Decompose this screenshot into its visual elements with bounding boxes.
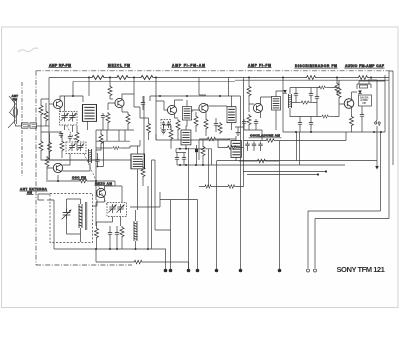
wire xyxy=(177,131,179,136)
long vertical x243.5 xyxy=(243,78,245,141)
wire xyxy=(127,112,129,130)
transistor Q8 audio FM xyxy=(344,99,354,109)
wire xyxy=(185,126,187,149)
label ANT EXTERNA AM xyxy=(20,187,48,194)
wire y262 row xyxy=(96,249,133,262)
rail down from bus at 199 xyxy=(199,78,206,96)
resistor R10 xyxy=(39,140,43,152)
wire row y148 with resistor xyxy=(96,146,130,148)
wire xyxy=(202,140,204,165)
AM osc coil L4 xyxy=(134,221,138,241)
wire Q6 emitter xyxy=(260,111,262,118)
wire Q8 collector/emitter xyxy=(352,92,358,115)
resistor R15 on 148 xyxy=(147,122,151,134)
wire Q2 base xyxy=(108,99,116,110)
small cap block xyxy=(195,149,198,152)
label OSC FM xyxy=(72,176,87,180)
wire disc bottom xyxy=(290,108,321,117)
wire Q2 collector xyxy=(122,78,134,108)
dots y96 xyxy=(159,95,221,97)
resistor R30 xyxy=(133,260,143,264)
svg-text:OSC FM: OSC FM xyxy=(72,176,86,180)
svg-text:SONY TFM 121: SONY TFM 121 xyxy=(337,265,386,274)
svg-text:MEZCL FM: MEZCL FM xyxy=(108,64,130,68)
capacitor C20 xyxy=(95,157,99,164)
dots on AM bus xyxy=(95,248,149,250)
antenna dash-dot lead xyxy=(21,82,23,176)
resistor R28 xyxy=(95,227,99,239)
label MEZC AM xyxy=(95,182,113,186)
wire ground row xyxy=(49,159,131,161)
dots disc bus xyxy=(295,131,382,133)
verticals disc to rails xyxy=(297,132,300,165)
AM var cap CV3 xyxy=(62,209,72,220)
capacitor C17 xyxy=(115,230,119,237)
verticals x208/x211 xyxy=(209,149,212,187)
drop rail x240.5 xyxy=(240,96,242,269)
disc bottom bus xyxy=(283,131,385,133)
wire ant externa lead xyxy=(38,194,50,200)
svg-text:AMP FI-FM-AM: AMP FI-FM-AM xyxy=(172,64,205,68)
capacitor C19 xyxy=(182,155,186,162)
IF transformer T1 xyxy=(183,107,192,121)
section label AMP RF-FM xyxy=(49,64,72,68)
resistor R9 xyxy=(75,131,79,143)
wire Q1 base xyxy=(49,103,54,105)
resistor R31 xyxy=(141,166,145,178)
capacitor C10 xyxy=(294,91,298,98)
dots osc row xyxy=(57,180,97,182)
wire xyxy=(361,106,363,132)
wire y139 zigzag row xyxy=(199,138,230,140)
B+ bus wire xyxy=(49,77,389,79)
resistor R7 input xyxy=(44,110,48,122)
osc tuning capacitor box CV2 (dashed) xyxy=(66,142,86,154)
capacitor C1 xyxy=(59,131,63,138)
svg-text:MEZC AM: MEZC AM xyxy=(95,182,112,186)
capacitor C16 xyxy=(108,230,112,237)
ground sym xyxy=(161,129,166,134)
resistor R27 xyxy=(350,115,354,127)
wire xyxy=(41,99,49,126)
wire xyxy=(137,146,139,172)
capacitor C4 xyxy=(141,100,145,107)
wire Q5 collector xyxy=(208,78,229,107)
wire Q2 emitter xyxy=(122,106,128,112)
wire Q1 collector to coil xyxy=(60,96,83,102)
wire xyxy=(49,133,51,160)
AM tuning dashed box CV4 xyxy=(107,203,127,217)
resistor R29 xyxy=(120,226,124,238)
resistor R17 xyxy=(204,118,208,130)
wire xyxy=(218,140,244,161)
capacitor C23 xyxy=(258,142,262,149)
section label DISCRIMINADOR FM xyxy=(295,64,338,68)
wire osc out xyxy=(48,160,115,200)
bus resistor R2 xyxy=(115,76,130,80)
drop rail x216 xyxy=(216,161,218,269)
capacitor C21 xyxy=(245,142,249,149)
wire xyxy=(98,153,104,167)
wire xyxy=(310,88,312,103)
rail from bus down left xyxy=(48,78,50,161)
wire xyxy=(61,133,63,158)
wire y186 row xyxy=(199,161,244,187)
rail down from bus at 110 with resistor xyxy=(109,78,111,86)
terminal dots bottom xyxy=(164,269,282,273)
coil L5 vertical xyxy=(169,129,173,141)
wire y161 row xyxy=(239,160,279,162)
wire Q6 base xyxy=(249,104,254,112)
wire L battery A xyxy=(308,132,381,268)
wire xyxy=(40,99,42,126)
resistor R18 xyxy=(194,115,198,127)
bus resistor R3 xyxy=(139,76,155,80)
resistor R8 xyxy=(48,141,52,153)
wire xyxy=(41,152,96,160)
resistor R35 xyxy=(206,137,217,141)
wire xyxy=(109,97,111,99)
wire xyxy=(351,127,353,132)
rail down from bus at 89 xyxy=(88,78,90,97)
svg-text:SALIDA: SALIDA xyxy=(360,96,369,99)
transistor Q3 OSC FM xyxy=(53,163,62,172)
resistor R23 disc mid xyxy=(300,101,310,104)
capacitor C13 xyxy=(298,120,302,127)
capacitor C3 xyxy=(101,113,105,120)
drop rail x197.5 xyxy=(197,200,199,270)
capacitor C9 xyxy=(242,119,246,126)
svg-text:AMP RF-FM: AMP RF-FM xyxy=(49,64,71,68)
wire xyxy=(164,125,172,149)
dot ends xyxy=(317,170,327,175)
section label MEZCL FM xyxy=(108,64,131,68)
ferrite coil L3 xyxy=(79,204,83,228)
FM chassis dash-dot boundary bottom xyxy=(36,264,132,266)
bus resistor R4 xyxy=(305,76,317,80)
wire jack rails xyxy=(359,75,385,132)
resistor R26 xyxy=(256,159,267,163)
wire xyxy=(186,100,187,126)
diode D1 xyxy=(283,90,287,93)
wire L battery B xyxy=(315,219,389,269)
wire under tuning box xyxy=(113,186,123,226)
resistor R8b xyxy=(60,140,64,152)
resistor R21 xyxy=(247,114,251,126)
bottom bus AM xyxy=(54,248,166,250)
resistor R25 vertical disc right xyxy=(337,87,341,99)
capacitor C12 xyxy=(315,94,319,101)
bus resistor R1 xyxy=(90,76,106,80)
wire xyxy=(228,136,236,161)
tuning capacitor box CV1 (dashed) xyxy=(60,112,78,126)
capacitor C11 xyxy=(309,91,313,98)
faint pencil smudge xyxy=(18,48,38,52)
wire disc top xyxy=(290,88,320,95)
capacitor C22 xyxy=(252,142,256,149)
earphone jack symbol xyxy=(357,81,371,89)
wire xyxy=(316,88,318,117)
section label AUDIO FM-AMP CAF xyxy=(345,64,385,68)
wire xyxy=(130,140,143,210)
wire xyxy=(330,116,336,118)
antenna FM telescopic rod xyxy=(8,96,18,128)
wire down to AM row xyxy=(95,130,97,160)
wire osc xyxy=(47,154,90,183)
wire cap bottoms xyxy=(248,149,261,152)
resistor R37 xyxy=(335,82,339,94)
wire emitter network xyxy=(41,126,61,140)
wire xyxy=(135,210,137,249)
wire row y141 xyxy=(96,130,130,141)
wire xyxy=(299,117,301,133)
vertical x103.5 xyxy=(103,141,105,160)
resistor R38 on y140 xyxy=(265,139,275,143)
vertical x144 xyxy=(143,96,145,160)
wire xyxy=(148,118,150,140)
switch contacts xyxy=(375,120,381,126)
label OSCILADORE AM xyxy=(249,134,282,138)
wire ground row mid xyxy=(235,126,262,141)
wire xyxy=(310,117,312,133)
gang dashed link xyxy=(67,126,77,143)
wire left drop xyxy=(95,202,97,226)
label ANT FM xyxy=(12,94,19,102)
wire antenna box to Q7 xyxy=(93,190,98,206)
transistor Q5 IF amp 2 xyxy=(199,103,208,112)
wire xyxy=(310,102,317,104)
wire y207 row xyxy=(130,200,160,208)
resistor R12 mixer emitter xyxy=(126,113,130,125)
wire xyxy=(295,88,297,103)
right rail x377 xyxy=(371,78,377,161)
RF coil can L1 xyxy=(83,105,97,122)
wire coil bottom xyxy=(87,121,89,130)
transistor Q6 IF amp FM xyxy=(253,103,262,112)
capacitor C15 xyxy=(360,112,364,119)
wire xyxy=(142,96,144,110)
resistor R11 xyxy=(108,85,112,97)
IF transformer T4 xyxy=(272,97,281,111)
ground sym disc xyxy=(236,130,241,135)
svg-text:OSCILADORE AM: OSCILADORE AM xyxy=(250,134,280,138)
resistor R13 xyxy=(106,112,110,124)
transistor Q2 mixer FM xyxy=(115,98,124,107)
drop rail x165.5 xyxy=(165,249,168,269)
resistor R32 vertical xyxy=(201,145,205,157)
trimmer capacitor CT2 xyxy=(30,123,37,128)
transistor Q1 RF amp FM xyxy=(53,99,62,108)
wire xyxy=(196,145,198,165)
wire xyxy=(110,226,117,249)
dots xyxy=(179,148,187,150)
transistor Q7 AM converter xyxy=(96,188,105,197)
vertical pair mid xyxy=(152,160,156,249)
rail down from bus at 156 xyxy=(155,78,157,102)
ferrite antenna dashed box xyxy=(50,194,93,243)
resistor R33 xyxy=(204,185,212,189)
wire ferrite links xyxy=(67,199,81,242)
capacitor C7 xyxy=(214,121,218,128)
discriminator coil T5 xyxy=(288,94,292,108)
section label AMP FI-FM xyxy=(248,64,272,68)
wire Q5 emitter xyxy=(205,111,207,118)
svg-text:ANT EXTERNA: ANT EXTERNA xyxy=(20,187,48,191)
bus junction dots xyxy=(88,77,372,79)
wire row y140 xyxy=(244,132,347,141)
wire xyxy=(177,153,184,166)
wire Q6 collector xyxy=(261,97,273,105)
wire xyxy=(196,112,206,136)
wire xyxy=(121,238,123,249)
wire y199 row xyxy=(160,192,198,200)
wire below tuning box xyxy=(65,125,73,132)
bus resistor R5 xyxy=(357,76,369,80)
small dashed trap box xyxy=(161,120,171,130)
resistor R14 xyxy=(99,133,103,145)
gang dashed link 2 xyxy=(84,154,107,206)
battery terminal A xyxy=(307,269,310,272)
AM IF transformer T7 xyxy=(131,154,145,169)
osc coil L2 xyxy=(88,149,92,163)
resistor R24 disc bottom xyxy=(321,115,329,118)
section label AMP FI-FM-AM xyxy=(172,64,206,68)
audio rails to bottom right xyxy=(177,161,377,166)
wire xyxy=(231,96,233,130)
wire row y96 xyxy=(150,96,241,101)
capacitor C8 xyxy=(254,119,258,126)
wire xyxy=(96,130,101,150)
wire disc mid xyxy=(292,102,301,104)
AM osc transformer T6 xyxy=(231,141,241,158)
wire Q7 collector xyxy=(105,186,123,190)
wire xyxy=(327,87,333,89)
wire Q4 collector xyxy=(175,100,184,107)
wire xyxy=(215,118,217,132)
battery terminal B xyxy=(314,269,317,272)
wire bottom FM IF row xyxy=(156,134,230,160)
resistor R22 disc top xyxy=(318,86,326,89)
wire Q7 emitter xyxy=(96,197,105,202)
wire xyxy=(47,200,54,249)
inner bus wire xyxy=(73,80,389,81)
FM chassis dash-dot boundary top xyxy=(36,70,390,72)
FM chassis dash-dot boundary left xyxy=(35,71,37,265)
wire xyxy=(28,125,30,127)
capacitor C2 xyxy=(68,134,72,141)
resistor R8c xyxy=(45,156,49,168)
resistor R16 xyxy=(176,119,180,131)
rail down from bus at 249 xyxy=(248,78,250,86)
wire antenna to input xyxy=(16,124,22,126)
wire xyxy=(76,126,78,150)
svg-text:AUDIO FM-AMP CAF: AUDIO FM-AMP CAF xyxy=(345,64,384,68)
wire mixer bottom xyxy=(96,120,134,130)
wire Q8 base xyxy=(332,78,345,105)
svg-text:AUDIO: AUDIO xyxy=(360,99,368,102)
resistor R34 xyxy=(227,185,236,189)
dots y165 xyxy=(179,164,204,166)
wire IF input row xyxy=(134,107,149,118)
wire xyxy=(96,222,113,249)
box SALIDA AUDIO FM xyxy=(359,95,372,106)
resistor R36 xyxy=(226,146,237,150)
IF transformer T3 xyxy=(227,107,236,123)
wire Q1 emitter xyxy=(59,107,61,112)
right rail x389 xyxy=(388,71,390,219)
resistor R20 xyxy=(247,85,251,97)
resistor R6 input xyxy=(39,104,43,116)
capacitor C14 xyxy=(309,120,313,127)
drop rail x188.5 xyxy=(188,148,190,269)
right rail x393 xyxy=(389,71,393,165)
svg-text:AMP FI-FM: AMP FI-FM xyxy=(248,64,271,68)
line pair mid right xyxy=(243,172,326,175)
resistor R40 on osc wire xyxy=(78,179,88,183)
diode D2 xyxy=(358,91,362,94)
resistor R39 xyxy=(112,146,120,149)
wire xyxy=(148,160,155,249)
resistor R19 xyxy=(218,122,222,134)
dot xyxy=(72,95,74,97)
ferrite core xyxy=(86,202,87,230)
drop rail x279 xyxy=(279,141,281,269)
trimmer capacitor CT1 xyxy=(22,123,29,128)
svg-text:FM: FM xyxy=(362,103,365,105)
wire row y148.8 xyxy=(176,149,212,153)
wire Q5 base xyxy=(192,110,200,112)
wire Q4 emitter xyxy=(175,113,179,118)
wire row xyxy=(155,101,157,140)
IF transformer T8 can xyxy=(181,130,191,145)
svg-text:DISCRIMINADOR FM: DISCRIMINADOR FM xyxy=(295,64,337,68)
capacitor C18 xyxy=(175,155,179,162)
wire input to RF amp xyxy=(37,125,50,127)
wire xyxy=(335,80,339,117)
wire above tuning box xyxy=(65,82,74,112)
arrow on rail xyxy=(375,161,379,170)
wire Q4 base xyxy=(156,101,168,110)
drop rail x171 xyxy=(155,200,171,270)
wire xyxy=(276,78,283,133)
transistor Q4 IF amp xyxy=(167,105,176,114)
wire xyxy=(248,97,250,104)
wire xyxy=(143,262,188,269)
